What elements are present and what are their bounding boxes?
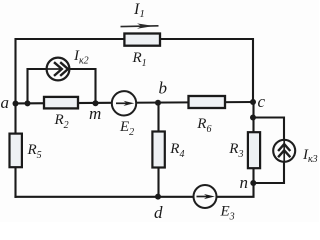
- node b: [155, 100, 161, 106]
- wire left vertical below a: [14, 103, 16, 197]
- resistor R3: [248, 132, 260, 168]
- node n: [250, 180, 256, 186]
- wire R4 branch b to d: [157, 103, 159, 197]
- node c: [250, 99, 256, 105]
- wire middle a-b-c: [16, 102, 254, 103]
- svg-text:I1: I1: [133, 1, 145, 20]
- svg-text:R2: R2: [54, 112, 69, 131]
- wire bottom: [16, 103, 254, 197]
- node a: [13, 101, 19, 107]
- wire Ik2 loop: [28, 69, 96, 103]
- svg-text:R4: R4: [169, 141, 184, 160]
- svg-text:c: c: [258, 92, 266, 111]
- svg-text:Iк3: Iк3: [302, 147, 318, 165]
- svg-text:R6: R6: [196, 116, 211, 135]
- svg-text:b: b: [159, 79, 168, 98]
- wire top (corner a-side to corner c-side): [16, 39, 254, 103]
- svg-text:п: п: [240, 173, 249, 192]
- resistor R4: [152, 132, 164, 168]
- svg-text:m: m: [89, 104, 101, 123]
- svg-text:Iк2: Iк2: [73, 48, 89, 67]
- current source Ik3: [273, 140, 295, 162]
- svg-text:R1: R1: [132, 50, 147, 69]
- svg-text:a: a: [1, 93, 10, 112]
- arrow I1: [121, 23, 159, 28]
- wire Ik3 branch: [253, 118, 284, 184]
- svg-text:E3: E3: [220, 204, 235, 223]
- node under c: [250, 115, 256, 121]
- node d: [155, 194, 161, 200]
- resistor R6: [189, 96, 226, 108]
- svg-text:R5: R5: [27, 142, 42, 161]
- node junction left: [25, 100, 31, 106]
- svg-text:d: d: [154, 203, 163, 222]
- svg-text:R3: R3: [228, 141, 243, 160]
- current source Ik2: [47, 58, 70, 81]
- svg-text:E2: E2: [119, 119, 134, 138]
- voltage source E3: [194, 185, 217, 208]
- resistor R1: [124, 34, 160, 46]
- node m: [93, 100, 99, 106]
- voltage source E2: [112, 91, 136, 115]
- resistor R5: [10, 134, 22, 168]
- resistor R2: [44, 97, 78, 109]
